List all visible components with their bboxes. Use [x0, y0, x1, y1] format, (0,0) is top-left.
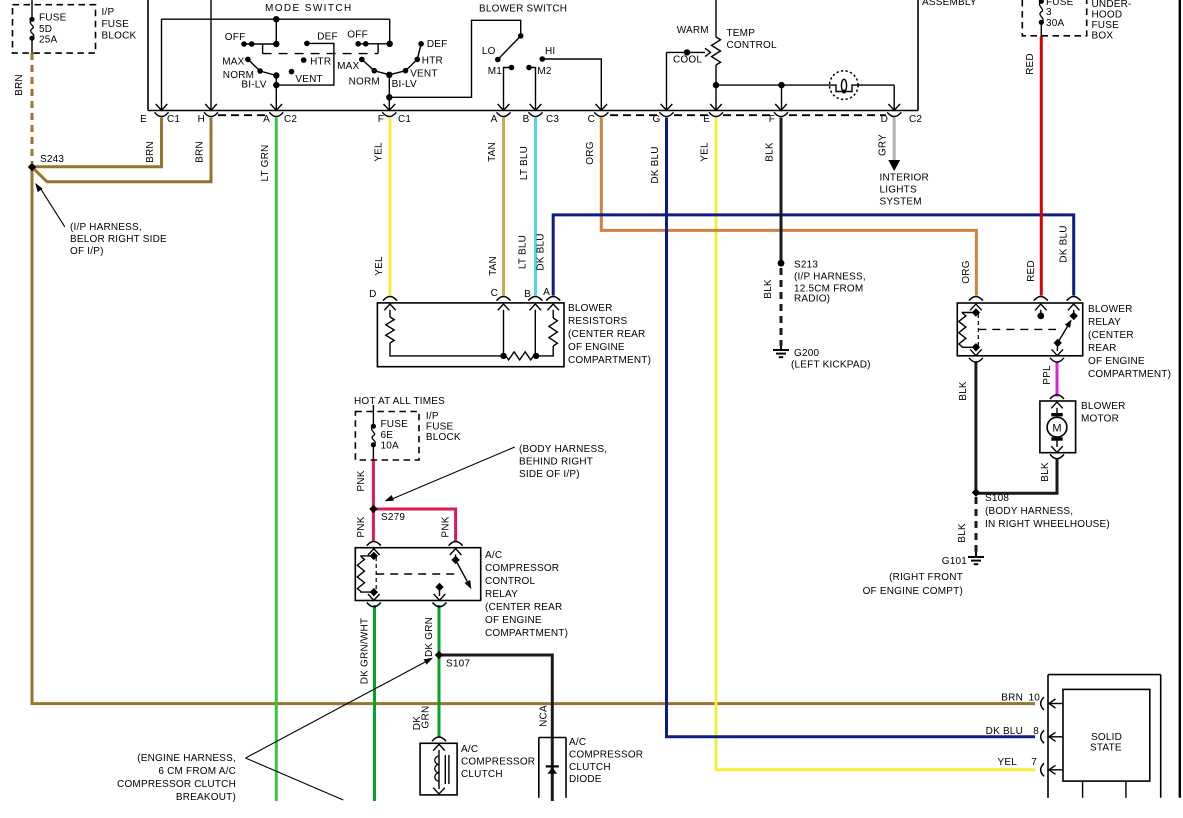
svg-text:BLOWER: BLOWER	[1081, 401, 1126, 412]
svg-text:30A: 30A	[1046, 18, 1065, 29]
svg-text:(ENGINE HARNESS,: (ENGINE HARNESS,	[137, 753, 236, 764]
svg-text:OF ENGINE: OF ENGINE	[485, 615, 542, 626]
svg-text:BRN: BRN	[145, 141, 156, 163]
svg-text:(CENTER REAR: (CENTER REAR	[568, 329, 645, 340]
svg-text:E: E	[703, 114, 710, 125]
svg-text:FUSE: FUSE	[102, 19, 130, 30]
svg-text:OF ENGINE COMPT): OF ENGINE COMPT)	[863, 586, 963, 597]
svg-text:HOT AT ALL TIMES: HOT AT ALL TIMES	[354, 396, 445, 407]
svg-text:LT BLU: LT BLU	[519, 146, 530, 180]
svg-text:DK BLU: DK BLU	[650, 146, 661, 183]
svg-text:GRY: GRY	[878, 134, 889, 156]
svg-text:NCA: NCA	[539, 705, 550, 727]
svg-text:A: A	[543, 287, 550, 298]
svg-text:PNK: PNK	[441, 516, 452, 537]
svg-text:G: G	[653, 114, 661, 125]
svg-text:SYSTEM: SYSTEM	[880, 196, 922, 207]
svg-text:MAX: MAX	[337, 61, 359, 72]
svg-text:C: C	[588, 114, 595, 125]
svg-text:SOLID: SOLID	[1091, 732, 1122, 743]
svg-text:C: C	[491, 288, 498, 299]
svg-text:VENT: VENT	[295, 74, 322, 85]
svg-text:BI-LV: BI-LV	[392, 79, 417, 90]
svg-text:D: D	[369, 289, 376, 300]
svg-text:BLOWER: BLOWER	[1088, 304, 1133, 315]
svg-text:RELAY: RELAY	[485, 589, 518, 600]
svg-text:COMPARTMENT): COMPARTMENT)	[1088, 369, 1171, 380]
svg-text:RED: RED	[1026, 260, 1037, 282]
svg-text:A/C: A/C	[461, 744, 478, 755]
svg-text:6E: 6E	[381, 430, 394, 441]
svg-text:HTR: HTR	[422, 55, 443, 66]
svg-text:COMPARTMENT): COMPARTMENT)	[568, 355, 651, 366]
svg-text:LO: LO	[482, 46, 496, 57]
svg-text:BLK: BLK	[765, 142, 776, 162]
svg-text:BLOCK: BLOCK	[426, 432, 461, 443]
svg-text:(I/P HARNESS,: (I/P HARNESS,	[794, 272, 866, 283]
svg-text:INTERIOR: INTERIOR	[880, 173, 929, 184]
svg-text:ORG: ORG	[961, 260, 972, 283]
svg-text:WARM: WARM	[677, 25, 709, 36]
svg-text:S243: S243	[40, 154, 64, 165]
svg-text:BLK: BLK	[763, 279, 774, 299]
svg-text:DIODE: DIODE	[569, 774, 602, 785]
svg-text:YEL: YEL	[374, 256, 385, 276]
svg-text:I/P: I/P	[102, 7, 115, 18]
svg-text:PPL: PPL	[1042, 365, 1053, 385]
svg-text:PNK: PNK	[356, 516, 367, 537]
svg-text:8: 8	[1033, 726, 1039, 737]
svg-text:CONTROL: CONTROL	[727, 40, 778, 51]
svg-text:C2: C2	[284, 114, 297, 125]
svg-text:COOL: COOL	[673, 55, 702, 66]
svg-text:M2: M2	[537, 66, 552, 77]
svg-text:FUSE: FUSE	[426, 422, 454, 433]
svg-text:I/P: I/P	[426, 411, 439, 422]
svg-text:BRN: BRN	[1001, 693, 1023, 704]
svg-text:DK GRN/WHT: DK GRN/WHT	[360, 618, 371, 684]
svg-text:BI-LV: BI-LV	[241, 80, 266, 91]
svg-text:MOTOR: MOTOR	[1081, 414, 1119, 425]
svg-text:F: F	[769, 114, 775, 125]
svg-text:B: B	[524, 289, 531, 300]
svg-text:BRN: BRN	[195, 141, 206, 163]
svg-text:RESISTORS: RESISTORS	[568, 316, 628, 327]
svg-text:5D: 5D	[39, 24, 52, 35]
svg-text:YEL: YEL	[700, 142, 711, 162]
svg-text:HOOD: HOOD	[1092, 10, 1123, 21]
svg-text:FUSE: FUSE	[1092, 20, 1120, 31]
svg-text:M: M	[1052, 423, 1061, 435]
svg-text:C2: C2	[909, 114, 922, 125]
svg-text:S213: S213	[794, 260, 818, 271]
svg-text:MODE SWITCH: MODE SWITCH	[265, 3, 353, 14]
svg-text:YEL: YEL	[374, 142, 385, 162]
svg-text:6 CM FROM A/C: 6 CM FROM A/C	[158, 766, 236, 777]
svg-text:A/C: A/C	[569, 737, 586, 748]
svg-text:B: B	[523, 114, 530, 125]
svg-text:COMPARTMENT): COMPARTMENT)	[485, 628, 568, 639]
svg-text:RADIO): RADIO)	[794, 294, 830, 305]
svg-text:DK BLU: DK BLU	[1059, 225, 1070, 262]
svg-text:BRN: BRN	[14, 74, 25, 96]
svg-text:YEL: YEL	[997, 757, 1017, 768]
svg-text:(I/P HARNESS,: (I/P HARNESS,	[70, 222, 142, 233]
svg-text:10: 10	[1028, 693, 1040, 704]
svg-text:FUSE: FUSE	[381, 419, 409, 430]
svg-text:CLUTCH: CLUTCH	[569, 762, 611, 773]
svg-text:S108: S108	[985, 493, 1009, 504]
svg-text:DEF: DEF	[427, 39, 448, 50]
svg-text:PNK: PNK	[356, 470, 367, 491]
svg-text:25A: 25A	[39, 35, 58, 46]
svg-text:G200: G200	[794, 348, 820, 359]
svg-text:(BODY HARNESS,: (BODY HARNESS,	[985, 506, 1073, 517]
svg-text:G101: G101	[942, 556, 968, 567]
svg-text:BLK: BLK	[958, 381, 969, 401]
svg-text:OFF: OFF	[347, 30, 368, 41]
svg-text:RED: RED	[1025, 53, 1036, 75]
svg-text:CONTROL: CONTROL	[485, 576, 536, 587]
svg-text:MAX: MAX	[222, 57, 244, 68]
svg-text:HTR: HTR	[310, 57, 331, 68]
svg-text:DEF: DEF	[317, 32, 338, 43]
svg-text:COMPRESSOR CLUTCH: COMPRESSOR CLUTCH	[117, 779, 236, 790]
svg-text:TAN: TAN	[488, 256, 499, 276]
svg-text:BOX: BOX	[1092, 31, 1114, 42]
svg-text:(BODY HARNESS,: (BODY HARNESS,	[519, 444, 607, 455]
svg-text:IN RIGHT WHEELHOUSE): IN RIGHT WHEELHOUSE)	[985, 519, 1110, 530]
svg-text:A/C: A/C	[485, 550, 502, 561]
svg-text:S107: S107	[446, 659, 470, 670]
svg-text:RELAY: RELAY	[1088, 317, 1121, 328]
svg-text:REAR: REAR	[1088, 343, 1117, 354]
svg-text:F: F	[378, 114, 384, 125]
svg-text:OFF: OFF	[225, 32, 246, 43]
svg-text:DK GRN: DK GRN	[424, 617, 435, 657]
svg-text:NORM: NORM	[349, 76, 380, 87]
svg-text:OF ENGINE: OF ENGINE	[1088, 356, 1145, 367]
svg-text:GRN: GRN	[421, 705, 432, 728]
svg-text:7: 7	[1031, 757, 1037, 768]
svg-text:FUSE: FUSE	[39, 13, 67, 24]
svg-text:OF I/P): OF I/P)	[70, 246, 104, 257]
svg-text:COMPRESSOR: COMPRESSOR	[569, 750, 643, 761]
svg-text:H: H	[198, 114, 205, 125]
svg-text:BEHIND RIGHT: BEHIND RIGHT	[519, 457, 593, 468]
svg-text:OF ENGINE: OF ENGINE	[568, 342, 625, 353]
svg-text:(RIGHT FRONT: (RIGHT FRONT	[889, 572, 963, 583]
svg-text:10A: 10A	[381, 441, 400, 452]
svg-text:BLK: BLK	[957, 523, 968, 543]
svg-text:3: 3	[1046, 7, 1052, 18]
svg-text:DK BLU: DK BLU	[986, 726, 1023, 737]
svg-text:C3: C3	[546, 114, 559, 125]
svg-text:A: A	[491, 114, 498, 125]
svg-text:BLOCK: BLOCK	[102, 31, 137, 42]
svg-text:BLK: BLK	[1040, 462, 1051, 482]
svg-text:BELOR RIGHT SIDE: BELOR RIGHT SIDE	[70, 234, 167, 245]
svg-text:LT BLU: LT BLU	[518, 235, 529, 269]
svg-text:DK BLU: DK BLU	[536, 233, 547, 270]
svg-text:ORG: ORG	[585, 141, 596, 164]
svg-text:TAN: TAN	[487, 142, 498, 162]
svg-text:TEMP: TEMP	[727, 28, 756, 39]
svg-text:BLOWER: BLOWER	[568, 303, 613, 314]
svg-text:(CENTER: (CENTER	[1088, 330, 1134, 341]
svg-text:S279: S279	[381, 512, 405, 523]
svg-text:M1: M1	[488, 66, 503, 77]
svg-text:VENT: VENT	[410, 69, 437, 80]
svg-text:(CENTER REAR: (CENTER REAR	[485, 602, 562, 613]
svg-text:COMPRESSOR: COMPRESSOR	[485, 563, 559, 574]
svg-text:C1: C1	[167, 114, 180, 125]
svg-text:(LEFT KICKPAD): (LEFT KICKPAD)	[791, 360, 871, 371]
svg-text:A: A	[263, 114, 270, 125]
svg-text:E: E	[140, 114, 147, 125]
svg-text:D: D	[881, 114, 888, 125]
svg-text:LT GRN: LT GRN	[260, 145, 271, 182]
svg-text:COMPRESSOR: COMPRESSOR	[461, 757, 535, 768]
svg-text:BLOWER SWITCH: BLOWER SWITCH	[479, 4, 567, 15]
svg-text:ASSEMBLY: ASSEMBLY	[922, 0, 977, 8]
svg-text:STATE: STATE	[1090, 743, 1122, 754]
svg-text:CLUTCH: CLUTCH	[461, 769, 503, 780]
svg-text:UNDER-: UNDER-	[1092, 0, 1132, 10]
svg-text:BREAKOUT): BREAKOUT)	[176, 792, 236, 803]
svg-text:LIGHTS: LIGHTS	[880, 184, 917, 195]
svg-text:SIDE OF I/P): SIDE OF I/P)	[519, 469, 580, 480]
svg-text:C1: C1	[398, 114, 411, 125]
svg-text:HI: HI	[545, 46, 555, 57]
